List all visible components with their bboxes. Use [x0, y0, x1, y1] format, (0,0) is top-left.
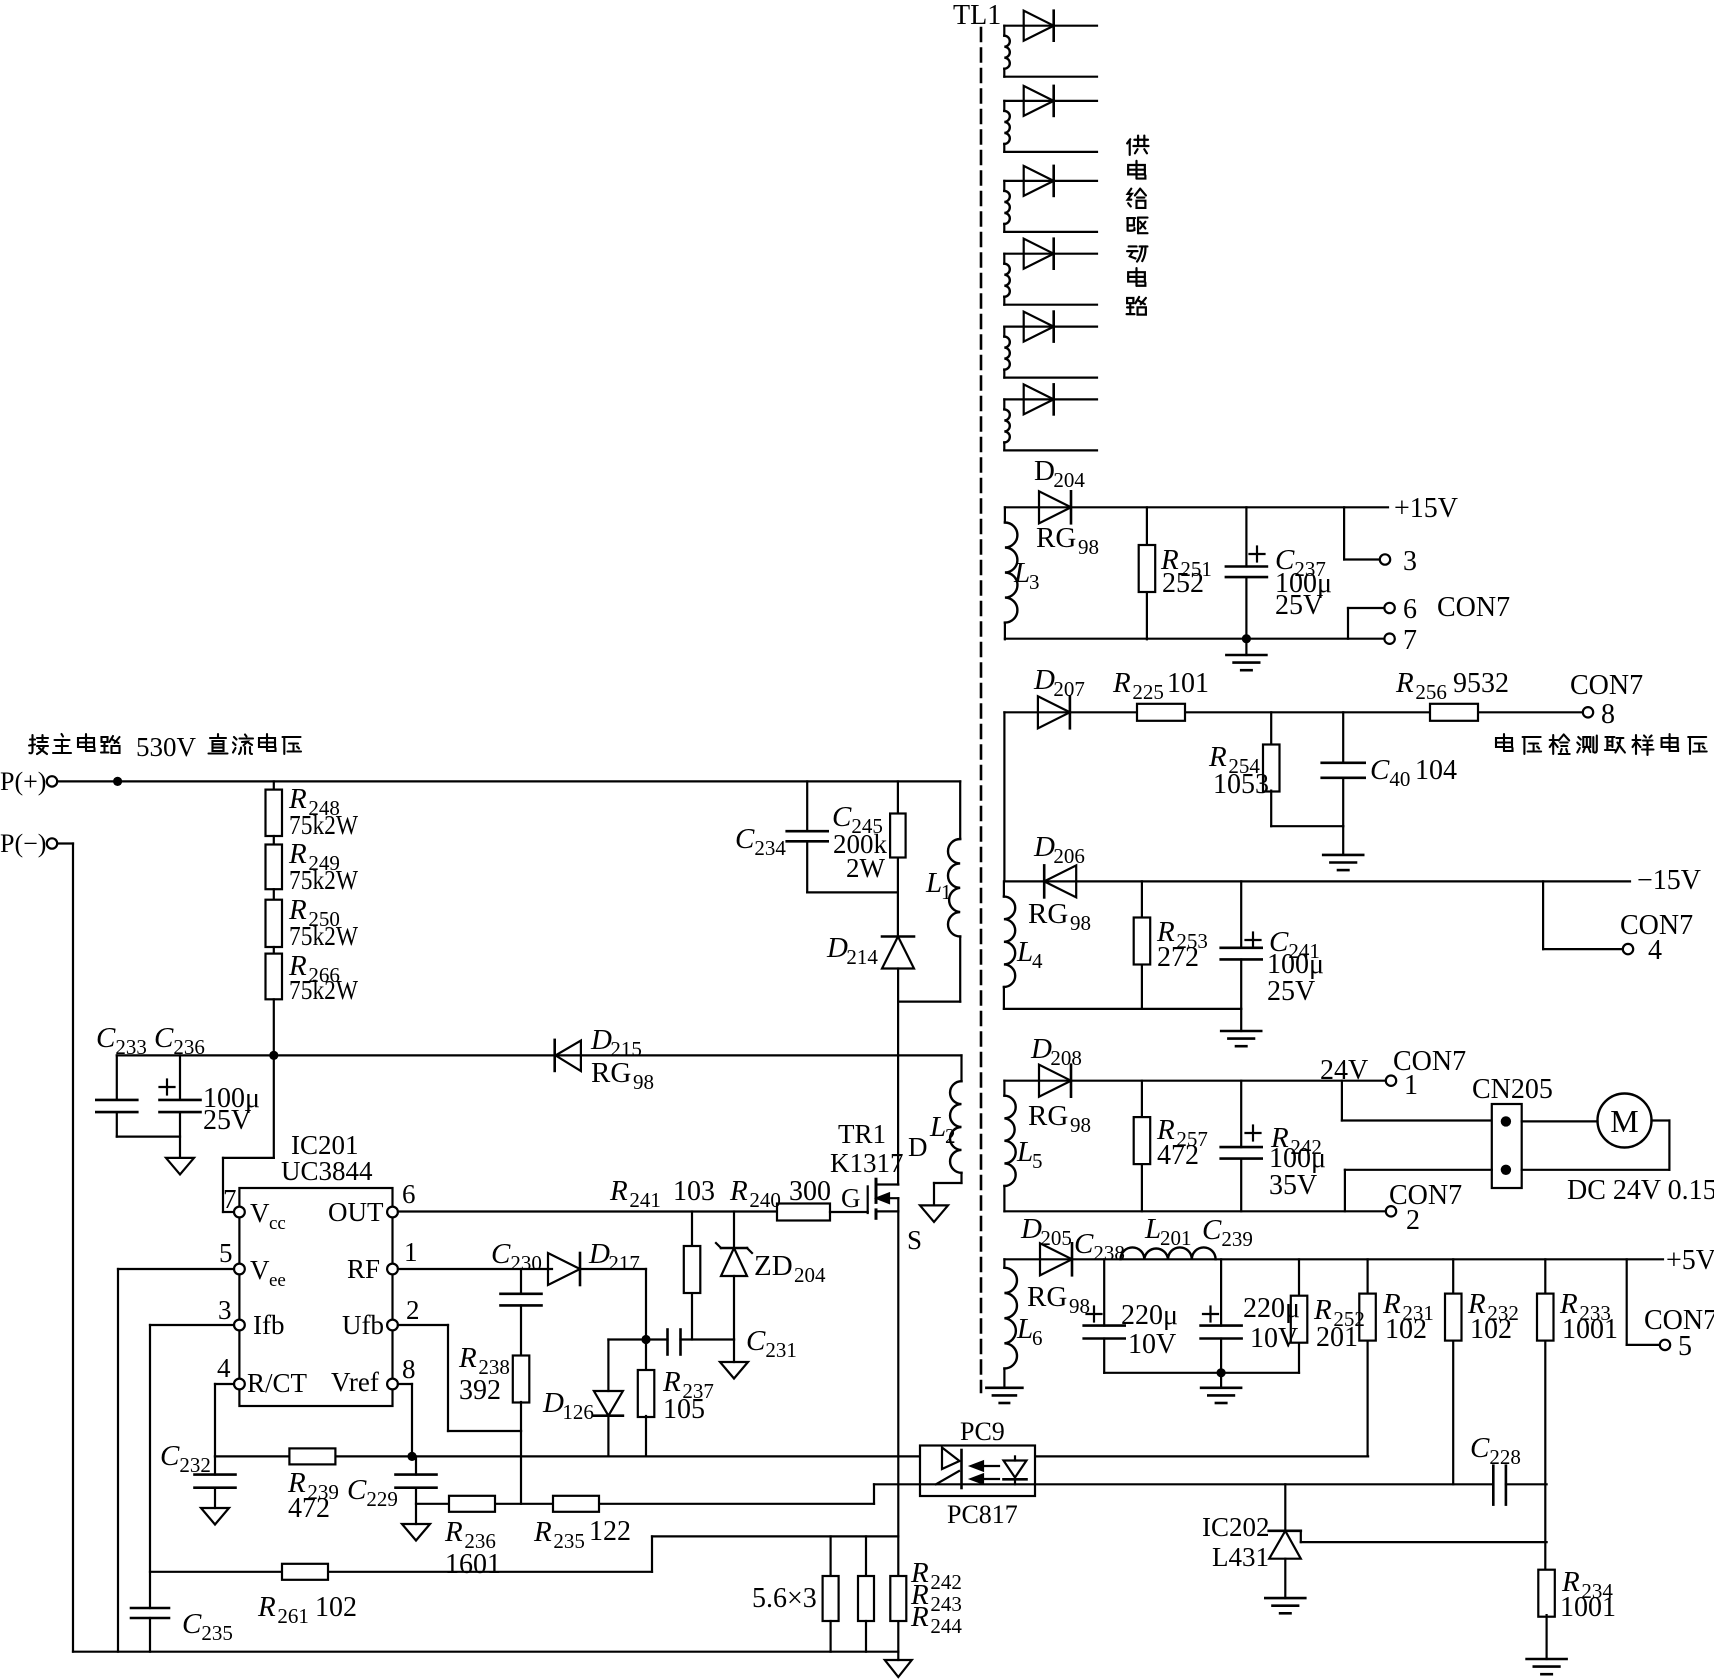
svg-text:P(+): P(+)	[0, 767, 46, 796]
svg-text:5.6×3: 5.6×3	[752, 1583, 817, 1614]
svg-text:25V: 25V	[1267, 976, 1315, 1007]
svg-text:IC202: IC202	[1202, 1512, 1270, 1542]
svg-text:239: 239	[1221, 1227, 1253, 1251]
svg-text:C: C	[154, 1022, 174, 1054]
svg-text:3: 3	[218, 1295, 232, 1325]
svg-text:L: L	[1016, 1136, 1033, 1168]
svg-text:24V: 24V	[1320, 1055, 1368, 1086]
svg-text:1001: 1001	[1560, 1592, 1616, 1623]
svg-text:D: D	[826, 932, 848, 964]
svg-text:C: C	[160, 1440, 180, 1472]
svg-text:233: 233	[115, 1035, 146, 1059]
svg-text:1601: 1601	[445, 1549, 501, 1580]
svg-text:L: L	[929, 1111, 946, 1143]
svg-text:R: R	[458, 1342, 477, 1374]
svg-text:2: 2	[406, 1295, 420, 1325]
svg-text:C: C	[746, 1325, 766, 1357]
svg-text:225: 225	[1132, 680, 1164, 704]
svg-text:UC3844: UC3844	[281, 1156, 373, 1186]
svg-text:L: L	[1016, 1313, 1033, 1345]
svg-text:98: 98	[1070, 911, 1091, 935]
svg-text:236: 236	[173, 1035, 205, 1059]
svg-text:105: 105	[663, 1394, 705, 1425]
svg-text:P(−): P(−)	[0, 829, 46, 858]
svg-text:L: L	[925, 867, 942, 899]
svg-text:98: 98	[1078, 535, 1099, 559]
svg-text:220μ: 220μ	[1121, 1300, 1178, 1331]
svg-text:CN205: CN205	[1472, 1074, 1553, 1105]
svg-text:R: R	[1395, 667, 1414, 699]
svg-text:98: 98	[633, 1070, 654, 1094]
svg-text:M: M	[1610, 1103, 1638, 1139]
svg-text:8: 8	[402, 1354, 416, 1384]
svg-text:CON7: CON7	[1570, 670, 1643, 701]
svg-text:R: R	[444, 1516, 463, 1548]
svg-text:RG: RG	[591, 1057, 631, 1089]
svg-text:230: 230	[510, 1251, 542, 1275]
svg-text:RG: RG	[1036, 522, 1076, 554]
svg-text:228: 228	[1489, 1445, 1521, 1469]
svg-text:ZD: ZD	[754, 1250, 793, 1282]
svg-text:472: 472	[1157, 1140, 1199, 1171]
svg-text:40: 40	[1389, 767, 1410, 791]
svg-text:C: C	[1470, 1432, 1490, 1464]
svg-text:2: 2	[945, 1124, 956, 1148]
svg-text:102: 102	[315, 1592, 357, 1623]
svg-text:10V: 10V	[1250, 1323, 1298, 1354]
svg-text:PC9: PC9	[960, 1417, 1005, 1446]
svg-text:6: 6	[1032, 1326, 1043, 1350]
svg-text:104: 104	[1415, 755, 1457, 786]
svg-text:D: D	[590, 1024, 612, 1056]
svg-text:+15V: +15V	[1394, 493, 1458, 524]
svg-text:241: 241	[629, 1188, 661, 1212]
svg-text:1: 1	[941, 880, 952, 904]
svg-text:R: R	[257, 1591, 276, 1623]
svg-text:256: 256	[1415, 680, 1447, 704]
svg-text:102: 102	[1470, 1314, 1512, 1345]
svg-text:C: C	[96, 1022, 116, 1054]
svg-text:102: 102	[1385, 1314, 1427, 1345]
svg-text:98: 98	[1069, 1294, 1090, 1318]
svg-text:243: 243	[930, 1592, 962, 1616]
svg-text:RG: RG	[1028, 1100, 1068, 1132]
svg-text:392: 392	[459, 1375, 501, 1406]
svg-text:D: D	[1034, 455, 1055, 487]
svg-text:101: 101	[1167, 668, 1209, 699]
svg-text:6: 6	[402, 1179, 416, 1209]
svg-text:205: 205	[1040, 1226, 1072, 1250]
svg-text:201: 201	[1316, 1322, 1358, 1353]
svg-text:217: 217	[608, 1251, 640, 1275]
svg-text:R: R	[910, 1601, 929, 1633]
svg-text:C: C	[1370, 754, 1390, 786]
svg-text:35V: 35V	[1269, 1170, 1317, 1201]
svg-text:238: 238	[1093, 1241, 1125, 1265]
svg-text:R: R	[609, 1175, 628, 1207]
svg-text:L: L	[1144, 1213, 1161, 1245]
svg-text:D: D	[1030, 1033, 1052, 1065]
svg-text:S: S	[907, 1225, 922, 1255]
svg-text:5: 5	[219, 1238, 233, 1268]
svg-text:75k2W: 75k2W	[289, 921, 358, 951]
svg-text:RG: RG	[1027, 1281, 1067, 1313]
svg-text:V: V	[250, 1255, 270, 1285]
svg-text:TL1: TL1	[953, 0, 1001, 31]
svg-text:208: 208	[1050, 1046, 1082, 1070]
svg-text:75k2W: 75k2W	[289, 865, 358, 895]
svg-text:242: 242	[930, 1570, 962, 1594]
svg-text:3: 3	[1029, 570, 1040, 594]
svg-text:240: 240	[749, 1188, 781, 1212]
svg-text:232: 232	[179, 1453, 211, 1477]
svg-text:530V: 530V	[136, 732, 197, 762]
svg-text:1001: 1001	[1562, 1314, 1618, 1345]
svg-text:Ifb: Ifb	[253, 1310, 284, 1340]
svg-text:235: 235	[553, 1529, 585, 1553]
svg-text:75k2W: 75k2W	[289, 810, 358, 840]
svg-text:204: 204	[794, 1263, 826, 1287]
svg-text:R: R	[1112, 667, 1131, 699]
svg-text:PC817: PC817	[947, 1500, 1018, 1529]
svg-text:D: D	[908, 1132, 928, 1162]
svg-text:D: D	[1033, 664, 1055, 696]
svg-text:6: 6	[1403, 594, 1417, 625]
svg-text:272: 272	[1157, 942, 1199, 973]
svg-text:R: R	[729, 1175, 748, 1207]
svg-text:5: 5	[1678, 1331, 1692, 1362]
svg-text:220μ: 220μ	[1243, 1293, 1300, 1324]
svg-text:R/CT: R/CT	[247, 1368, 308, 1398]
svg-text:G: G	[841, 1183, 861, 1213]
svg-text:25V: 25V	[1275, 590, 1323, 621]
svg-text:244: 244	[930, 1614, 962, 1638]
svg-text:472: 472	[288, 1493, 330, 1524]
svg-text:214: 214	[846, 945, 878, 969]
svg-text:2: 2	[1406, 1205, 1420, 1236]
svg-text:Ufb: Ufb	[342, 1310, 384, 1340]
svg-text:300: 300	[789, 1176, 831, 1207]
svg-text:9532: 9532	[1453, 668, 1509, 699]
svg-text:CON7: CON7	[1437, 592, 1510, 623]
svg-text:DC 24V 0.15A: DC 24V 0.15A	[1567, 1175, 1714, 1206]
svg-text:3: 3	[1403, 546, 1417, 577]
svg-text:C: C	[347, 1474, 367, 1506]
svg-text:L: L	[1016, 936, 1033, 968]
svg-text:+5V: +5V	[1666, 1245, 1714, 1276]
svg-text:−15V: −15V	[1637, 865, 1701, 896]
svg-text:126: 126	[562, 1400, 594, 1424]
svg-text:75k2W: 75k2W	[289, 975, 358, 1005]
svg-text:2W: 2W	[846, 853, 886, 883]
svg-text:CON7: CON7	[1389, 1180, 1462, 1211]
svg-text:204: 204	[1053, 468, 1085, 492]
svg-text:207: 207	[1053, 677, 1085, 701]
svg-text:C: C	[182, 1608, 202, 1640]
svg-text:D: D	[1033, 831, 1055, 863]
svg-text:1: 1	[404, 1237, 418, 1267]
svg-text:229: 229	[366, 1487, 398, 1511]
svg-text:10V: 10V	[1128, 1329, 1176, 1360]
svg-text:231: 231	[765, 1338, 797, 1362]
svg-text:Vref: Vref	[331, 1367, 379, 1397]
svg-text:C: C	[491, 1238, 511, 1270]
svg-text:C: C	[1074, 1228, 1094, 1260]
svg-text:201: 201	[1160, 1226, 1192, 1250]
svg-text:cc: cc	[269, 1213, 286, 1234]
svg-text:4: 4	[1032, 949, 1043, 973]
svg-text:103: 103	[673, 1176, 715, 1207]
svg-text:7: 7	[223, 1184, 237, 1214]
svg-text:TR1: TR1	[838, 1119, 886, 1149]
svg-text:RF: RF	[347, 1254, 380, 1284]
svg-text:L: L	[1013, 557, 1030, 589]
svg-text:OUT: OUT	[328, 1197, 384, 1227]
svg-text:R: R	[533, 1516, 552, 1548]
svg-text:98: 98	[1070, 1113, 1091, 1137]
svg-text:D: D	[1020, 1213, 1042, 1245]
svg-text:1: 1	[1404, 1070, 1418, 1101]
svg-text:7: 7	[1403, 625, 1417, 656]
svg-text:8: 8	[1601, 699, 1615, 730]
svg-text:252: 252	[1162, 568, 1204, 599]
svg-text:ee: ee	[269, 1270, 286, 1291]
svg-text:L431: L431	[1212, 1542, 1269, 1572]
svg-text:K1317: K1317	[830, 1148, 904, 1178]
svg-text:4: 4	[1648, 935, 1662, 966]
svg-text:261: 261	[277, 1604, 309, 1628]
svg-text:234: 234	[754, 836, 786, 860]
svg-text:4: 4	[217, 1353, 231, 1383]
svg-text:D: D	[542, 1387, 564, 1419]
svg-text:C: C	[735, 823, 755, 855]
svg-text:C: C	[1202, 1214, 1222, 1246]
svg-text:25V: 25V	[203, 1105, 251, 1136]
svg-text:V: V	[250, 1198, 270, 1228]
svg-text:1053: 1053	[1213, 769, 1269, 800]
svg-text:122: 122	[589, 1516, 631, 1547]
svg-text:206: 206	[1053, 844, 1085, 868]
svg-text:RG: RG	[1028, 898, 1068, 930]
svg-text:D: D	[588, 1238, 610, 1270]
svg-text:5: 5	[1032, 1149, 1043, 1173]
svg-text:235: 235	[201, 1621, 233, 1645]
